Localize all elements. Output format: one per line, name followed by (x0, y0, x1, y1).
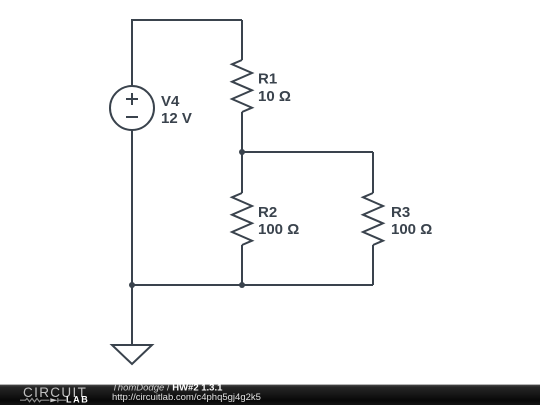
wire R1 bottom lead (241, 112, 243, 152)
wire R1 top lead (241, 20, 243, 60)
resistor R1 (232, 60, 252, 112)
svg-text:100 Ω: 100 Ω (258, 221, 299, 238)
label R1 value (258, 71, 291, 106)
svg-text:R3: R3 (391, 204, 410, 221)
wire R3 top lead (372, 152, 374, 193)
wire ground stem (131, 285, 133, 345)
wire top rail (132, 19, 242, 21)
wire left rail lower (131, 130, 133, 285)
node A junction dot (239, 149, 245, 155)
svg-text:V4: V4 (161, 93, 180, 110)
label R2 value (258, 204, 299, 238)
svg-text:LAB: LAB (66, 395, 89, 405)
svg-text:10 Ω: 10 Ω (258, 88, 291, 105)
label V4 value (161, 93, 192, 127)
ground (112, 345, 152, 364)
resistor R3 (363, 193, 383, 245)
node C junction dot (129, 282, 135, 288)
node B junction dot (239, 282, 245, 288)
logo resistor-diode symbol (20, 398, 66, 402)
wire mid rail (242, 151, 373, 153)
wire R2 top lead (241, 152, 243, 193)
wire R3 bottom lead (372, 245, 374, 285)
wire R2 bottom lead (241, 245, 243, 285)
wire bottom rail (132, 284, 373, 286)
resistor R2 (232, 193, 252, 245)
svg-text:100 Ω: 100 Ω (391, 221, 432, 238)
svg-text:R1: R1 (258, 71, 277, 88)
wire left rail upper (131, 19, 133, 86)
logo diode triangle (50, 398, 57, 402)
label R3 value (391, 204, 432, 238)
svg-text:12 V: 12 V (161, 110, 192, 127)
svg-text:http://circuitlab.com/c4phq5gj: http://circuitlab.com/c4phq5gj4g2k5 (112, 392, 261, 403)
voltage source V4 (110, 86, 154, 130)
svg-text:R2: R2 (258, 204, 277, 221)
